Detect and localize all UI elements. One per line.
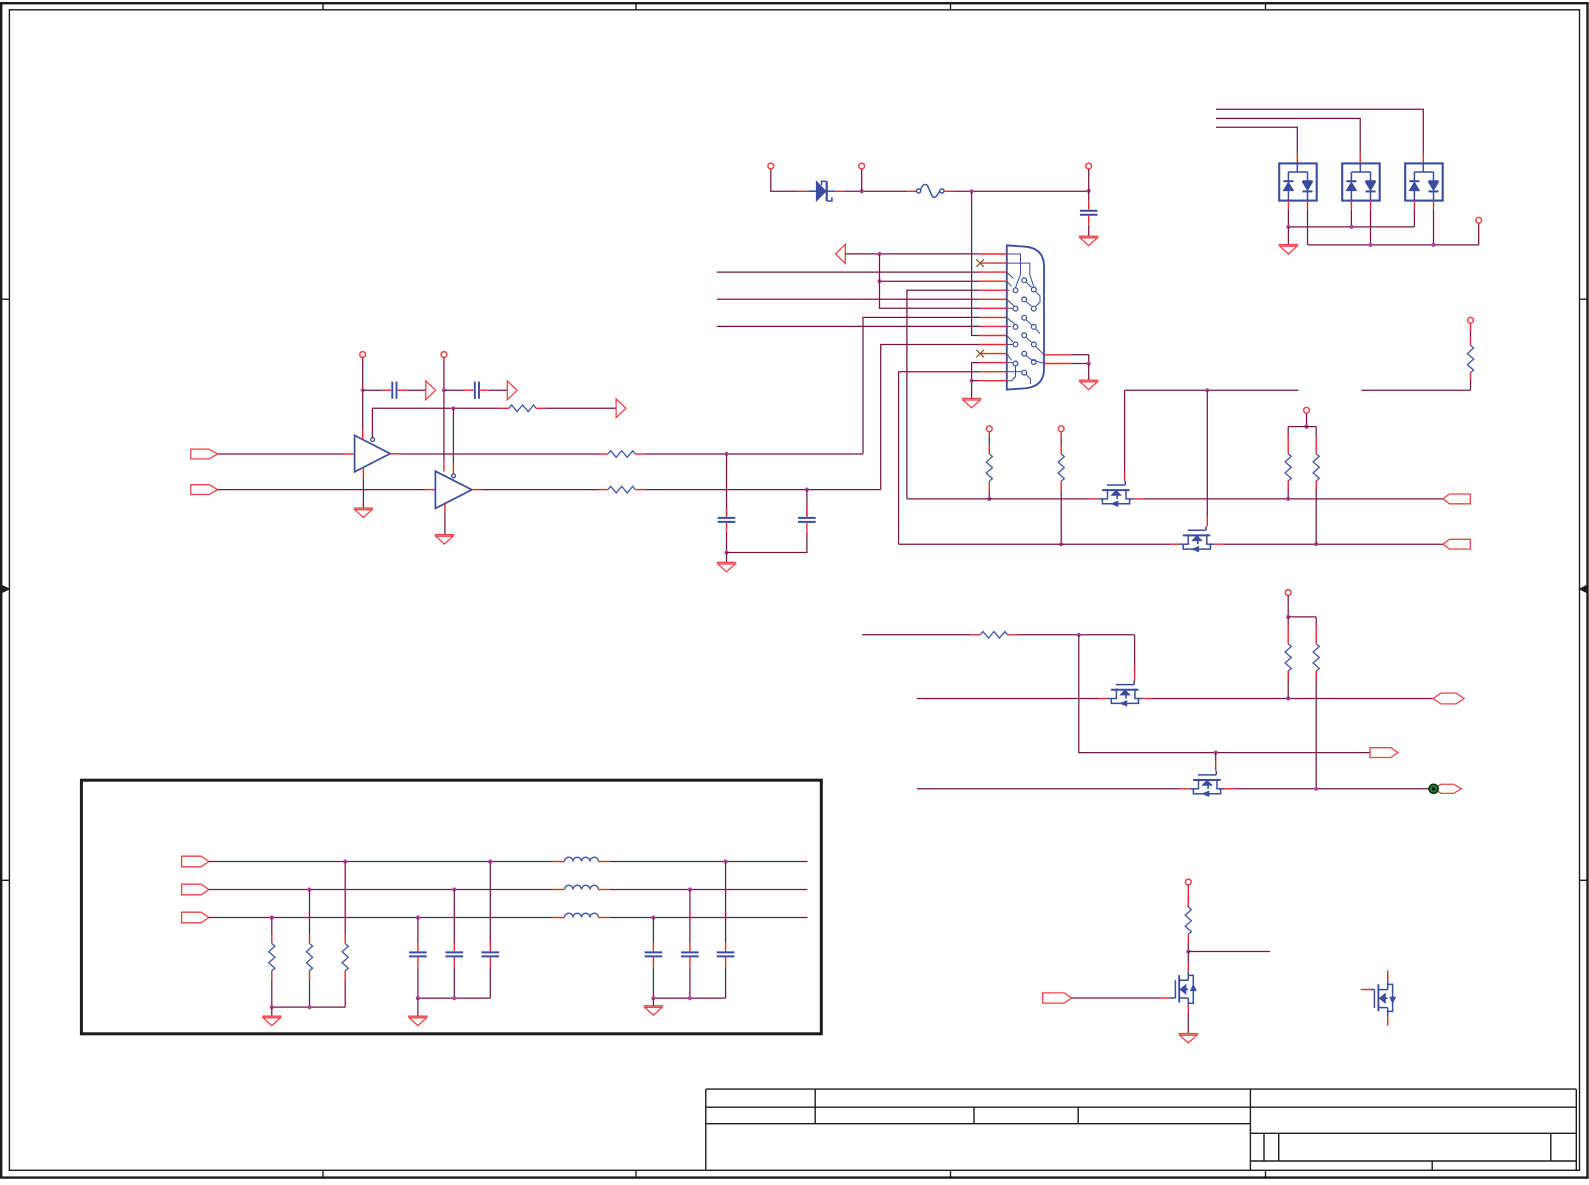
- schottky diode D1: [808, 181, 835, 201]
- wire: [489, 389, 507, 391]
- wire bus C: [209, 917, 553, 919]
- wire: [344, 980, 346, 1007]
- pin: [1215, 761, 1217, 770]
- wire: [1187, 944, 1189, 952]
- wire: [309, 890, 311, 935]
- pin: [1225, 788, 1235, 790]
- zone tick top 2: [635, 3, 637, 10]
- wire pin10 feed: [972, 191, 980, 335]
- pin: [1470, 372, 1472, 381]
- resistor R9: [971, 632, 1017, 639]
- wire: [1088, 364, 1090, 381]
- off-sheet power VCC7: [1285, 590, 1291, 596]
- wire: [725, 966, 727, 998]
- wire: [444, 389, 465, 391]
- pin: [1370, 201, 1372, 210]
- capacitor C5: [798, 508, 816, 532]
- pin 7: [980, 307, 1007, 309]
- title block: [706, 1089, 1577, 1170]
- pin: [1214, 543, 1224, 545]
- wire: [1088, 169, 1090, 191]
- wire: [1288, 616, 1316, 618]
- ground: [644, 1006, 663, 1015]
- wire M4 gate: [1215, 753, 1217, 762]
- wire: [806, 490, 808, 509]
- capacitor C11: [645, 943, 663, 967]
- capacitor C10: [681, 943, 699, 967]
- wire: [1307, 209, 1309, 245]
- pin: [443, 462, 445, 472]
- pin: [452, 463, 454, 474]
- wire pin6: [717, 298, 980, 300]
- pin: [1287, 201, 1289, 210]
- off-sheet connector P1: [768, 163, 774, 169]
- pin: [1187, 1004, 1189, 1014]
- zone tick top 3: [950, 3, 952, 10]
- junction: [860, 189, 864, 193]
- pin: [1413, 201, 1415, 210]
- wire: [726, 532, 728, 553]
- off-sheet power VCC1: [360, 352, 366, 358]
- ground: [1279, 245, 1298, 254]
- pin: [425, 489, 435, 491]
- pin: [345, 453, 355, 455]
- wire: [1234, 788, 1429, 790]
- ground: [717, 562, 736, 571]
- inductor L2: [553, 885, 610, 889]
- wire: [1152, 698, 1433, 700]
- wire pin17: [1071, 363, 1089, 365]
- wire: [726, 454, 728, 508]
- port CH5 with green marker: [1429, 784, 1461, 793]
- resistor R12: [1185, 885, 1191, 944]
- transistor Q5: [1170, 972, 1196, 1004]
- wire: [271, 918, 273, 935]
- junction: [307, 1005, 311, 1009]
- capacitor C7: [446, 943, 464, 967]
- wire: [489, 966, 491, 998]
- off-sheet power VCC2: [441, 352, 447, 358]
- transistor Q2: [1180, 526, 1215, 551]
- port CH2: [1443, 539, 1470, 549]
- pin 1: [980, 253, 1007, 255]
- wire upper bus: [1288, 226, 1414, 228]
- resistor R2: [499, 405, 545, 412]
- resistor R7: [1285, 427, 1291, 499]
- wire: [953, 190, 1089, 192]
- input port DE1: [191, 449, 218, 459]
- pin buffer1 gnd: [362, 468, 364, 479]
- ground: [1079, 236, 1098, 245]
- off-sheet connector P2: [859, 163, 865, 169]
- wire: [362, 479, 364, 509]
- wire pin11: [881, 345, 980, 490]
- wire: [363, 389, 382, 391]
- wire: [1370, 209, 1372, 245]
- junction: [1314, 787, 1318, 791]
- TVS array D3: [1342, 163, 1380, 200]
- wire: [1362, 389, 1471, 391]
- junction: [361, 388, 365, 392]
- wire: [1350, 209, 1352, 227]
- junction: [452, 887, 456, 891]
- pin: [390, 453, 400, 455]
- pin 11: [980, 344, 1007, 346]
- wire: [309, 980, 311, 1007]
- port CH1: [1443, 494, 1470, 504]
- capacitor C1: [1080, 201, 1098, 225]
- wire: [417, 966, 419, 998]
- wire enable: [372, 408, 499, 437]
- junction: [1286, 615, 1290, 619]
- junction: [343, 859, 347, 863]
- wire bottom bar 2: [418, 997, 490, 999]
- pin: [1170, 543, 1180, 545]
- junction: [688, 887, 692, 891]
- wire pin3: [717, 271, 980, 273]
- capacitor C8: [409, 943, 427, 967]
- junction: [1087, 189, 1091, 193]
- resistor R15: [269, 934, 275, 980]
- wire: [771, 169, 798, 191]
- junction: [970, 379, 974, 383]
- wire: [362, 357, 364, 429]
- junction: [724, 452, 728, 456]
- wire: [1079, 635, 1370, 753]
- wire: [218, 453, 345, 455]
- pin: [798, 190, 808, 192]
- transistor Q4: [1190, 771, 1225, 796]
- junction: [270, 915, 274, 919]
- junction: [416, 996, 420, 1000]
- wire: [417, 998, 419, 1016]
- pin 8: [980, 316, 1007, 318]
- wire bottom bar 1: [272, 1006, 345, 1008]
- zone arrow right: [1580, 585, 1588, 592]
- wire M4 line: [917, 788, 1181, 790]
- wire net ESD2: [1216, 118, 1360, 153]
- zone tick left lower: [1, 879, 9, 881]
- wire bus A: [209, 861, 553, 863]
- wire: [861, 169, 863, 191]
- wire: [652, 966, 654, 998]
- pin: [944, 190, 953, 192]
- junction: [1214, 751, 1218, 755]
- pin: [1089, 498, 1099, 500]
- junction: [651, 996, 655, 1000]
- ground: [354, 508, 373, 517]
- pin 4: [980, 280, 1007, 282]
- junction: [805, 488, 809, 492]
- pin: [1206, 517, 1208, 526]
- pin: [472, 489, 482, 491]
- transistor Q3: [1108, 681, 1143, 706]
- wire: [546, 407, 617, 409]
- junction: [877, 279, 881, 283]
- zone tick bottom 2: [635, 1170, 637, 1177]
- wire: [1187, 1014, 1189, 1034]
- wire: [1413, 209, 1415, 227]
- pin 13: [980, 362, 1007, 364]
- TVS array D4: [1405, 163, 1443, 200]
- arrow port NP1: [426, 381, 436, 400]
- wire stub: [1188, 951, 1270, 953]
- capacitor C2: [382, 382, 407, 399]
- port CH4: [1370, 748, 1398, 758]
- junction: [1186, 949, 1190, 953]
- ground: [962, 398, 981, 407]
- transistor Q6 floating: [1361, 970, 1396, 1025]
- wire: [1143, 498, 1443, 500]
- wire: [218, 489, 426, 491]
- wire out A: [610, 861, 808, 863]
- resistor R1: [599, 451, 645, 458]
- wire: [988, 491, 990, 499]
- wire: [452, 408, 454, 463]
- junction: [1431, 243, 1435, 247]
- arrow port NP2: [507, 381, 517, 400]
- pin: [1422, 154, 1424, 164]
- wire pin9: [717, 325, 980, 327]
- no-connect pin2: [976, 259, 984, 267]
- pin: [1307, 201, 1309, 210]
- wire: [444, 513, 446, 535]
- wire: [271, 1007, 273, 1016]
- pin 6: [980, 298, 1007, 300]
- wire: [344, 862, 346, 935]
- filter port B: [182, 884, 209, 895]
- wire M2 gate: [1206, 390, 1208, 517]
- pin: [835, 190, 844, 192]
- wire: [689, 890, 691, 943]
- junction: [1314, 542, 1318, 546]
- ground: [408, 1016, 427, 1025]
- pin: [726, 508, 728, 516]
- wire: [482, 489, 600, 491]
- zone tick bottom 1: [322, 1170, 324, 1177]
- wire: [1187, 952, 1189, 963]
- junction: [651, 915, 655, 919]
- wire: [1071, 997, 1160, 999]
- junction: [451, 406, 455, 410]
- filter port A: [182, 856, 209, 867]
- wire: [1088, 225, 1090, 237]
- input port DE2: [191, 485, 218, 495]
- wire: [1224, 543, 1443, 545]
- junction: [1205, 388, 1209, 392]
- zone tick bottom 3: [950, 1170, 952, 1177]
- wire pin7: [880, 254, 980, 308]
- ground: [1179, 1034, 1198, 1043]
- wire: [1088, 191, 1090, 201]
- junction: [1286, 225, 1290, 229]
- wire: [453, 966, 455, 998]
- wire pin15: [972, 380, 980, 382]
- wire: [725, 862, 727, 943]
- wire: [407, 389, 426, 391]
- zone tick top 4: [1265, 3, 1267, 10]
- pin: [1143, 698, 1153, 700]
- off-sheet power VCC5b: [1058, 426, 1064, 432]
- wire: [1124, 390, 1126, 470]
- wire out C: [610, 917, 808, 919]
- off-sheet connector P4: [1476, 217, 1482, 223]
- resistor R3: [599, 486, 645, 493]
- port arrow VCC5: [836, 244, 846, 263]
- off-sheet connector P3: [1086, 163, 1092, 169]
- wire lower bus: [1308, 244, 1479, 246]
- buffer U1B: [435, 471, 471, 508]
- junction: [724, 550, 728, 554]
- junction: [970, 189, 974, 193]
- junction: [1368, 243, 1372, 247]
- wire: [645, 453, 863, 455]
- off-sheet power VCC4: [986, 426, 992, 432]
- wire: [271, 980, 273, 1007]
- fuse F1: [917, 184, 945, 197]
- resistor R13: [342, 934, 348, 980]
- wire pin8: [863, 317, 980, 453]
- pin: [907, 190, 916, 192]
- arrow port NP3: [616, 399, 626, 418]
- no-connect pin12: [976, 350, 984, 358]
- ground: [262, 1016, 281, 1025]
- pin 14: [980, 371, 1007, 373]
- resistor R6: [1058, 432, 1064, 491]
- wire: [399, 453, 401, 455]
- wire pin16: [1071, 355, 1089, 364]
- pin: [806, 508, 808, 516]
- junction: [688, 996, 692, 1000]
- wire: [453, 890, 455, 943]
- junction: [1286, 497, 1290, 501]
- wire out B: [610, 889, 808, 891]
- wire pin4: [880, 280, 980, 282]
- wire: [1433, 209, 1435, 245]
- pin: [1350, 201, 1352, 210]
- pin: [1296, 154, 1298, 164]
- wire bus B: [209, 889, 553, 891]
- wire: [1287, 595, 1289, 617]
- resistor R4: [1467, 323, 1473, 372]
- pin: [1187, 962, 1189, 972]
- wire M1 line: [907, 498, 1089, 500]
- pin 2: [980, 262, 1007, 264]
- wire: [489, 862, 491, 943]
- junction: [987, 497, 991, 501]
- zone tick bottom 4: [1265, 1170, 1267, 1177]
- wire: [844, 190, 907, 192]
- pin: [362, 430, 364, 440]
- wire: [1306, 413, 1308, 426]
- wire pin13: [972, 363, 980, 399]
- wire: [689, 966, 691, 998]
- inductor L3: [553, 913, 610, 917]
- TVS array D2: [1279, 163, 1317, 200]
- ground: [1079, 380, 1098, 389]
- pin: [1161, 997, 1171, 999]
- wire: [652, 998, 654, 1006]
- junction: [724, 859, 728, 863]
- junction: [1077, 633, 1081, 637]
- junction: [442, 388, 446, 392]
- pin 9: [980, 325, 1007, 327]
- port GATE5: [1043, 993, 1072, 1003]
- wire: [1288, 426, 1316, 428]
- wire: [1287, 227, 1289, 245]
- pin: [1433, 201, 1435, 210]
- wire: [1478, 223, 1480, 245]
- wire R9 line: [862, 634, 971, 636]
- pin 5: [980, 289, 1007, 291]
- capacitor C6: [482, 943, 500, 967]
- wire M2 line: [899, 543, 1171, 545]
- wire: [645, 489, 881, 491]
- junction: [307, 887, 311, 891]
- pin 3: [980, 271, 1007, 273]
- resistor R8: [1313, 427, 1319, 545]
- wire net ESD3: [1216, 127, 1297, 154]
- zone arrow left: [2, 585, 10, 592]
- pin: [1098, 698, 1108, 700]
- zone tick right upper: [1580, 298, 1588, 300]
- wire gate net M1: [1125, 389, 1299, 391]
- junction: [270, 1005, 274, 1009]
- wire pin5: [907, 290, 980, 499]
- wire: [443, 357, 445, 461]
- wire: [1060, 491, 1062, 545]
- pin 10: [980, 335, 1007, 337]
- resistor R10: [1285, 617, 1291, 699]
- resistor R11: [1313, 617, 1319, 789]
- transistor Q1: [1099, 481, 1134, 506]
- zone tick top 1: [322, 3, 324, 10]
- wire: [417, 918, 419, 943]
- resistor R14: [306, 934, 312, 980]
- junction: [1304, 425, 1308, 429]
- pin: [1134, 498, 1144, 500]
- junction: [1087, 361, 1091, 365]
- capacitor C4: [718, 508, 736, 532]
- filter port C: [182, 912, 209, 923]
- zone tick right lower: [1580, 879, 1588, 881]
- junction: [1349, 225, 1353, 229]
- junction: [416, 915, 420, 919]
- off-sheet power VCC8: [1185, 879, 1191, 885]
- junction: [877, 252, 881, 256]
- pin 12: [980, 353, 1007, 355]
- capacitor C3: [464, 382, 489, 399]
- pin: [1134, 666, 1136, 681]
- connector J1 body: [1007, 245, 1044, 389]
- pin 15: [980, 380, 1007, 382]
- wire: [726, 553, 728, 563]
- junction: [1059, 542, 1063, 546]
- wire: [1134, 635, 1136, 666]
- pin: [1180, 788, 1190, 790]
- pin: [1359, 154, 1361, 164]
- zone tick left upper: [1, 298, 9, 300]
- wire pin14: [899, 372, 980, 545]
- off-sheet power VCC3: [1468, 317, 1474, 323]
- resistor R5: [986, 432, 992, 491]
- wire pin1: [845, 253, 980, 255]
- wire: [1017, 634, 1135, 636]
- pin: [1124, 470, 1126, 481]
- junction: [452, 996, 456, 1000]
- filter enclosure: [81, 780, 821, 1034]
- wire: [1287, 209, 1289, 227]
